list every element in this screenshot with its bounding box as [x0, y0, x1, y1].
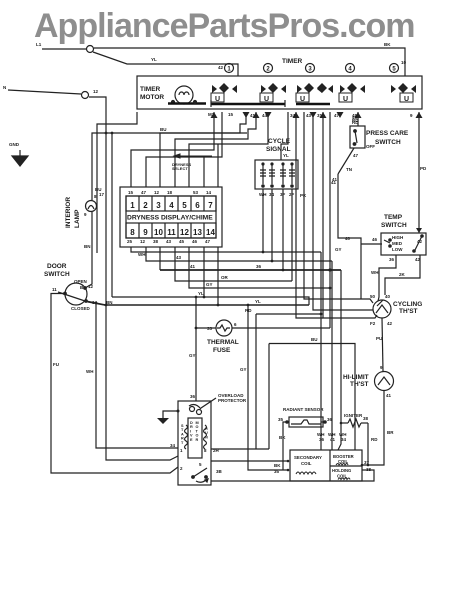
svg-text:7: 7 [208, 201, 213, 210]
wire x248 down [248, 305, 288, 470]
svg-text:36: 36 [319, 437, 325, 442]
dryness display block outer [120, 187, 222, 247]
svg-text:9: 9 [410, 113, 413, 118]
svg-text:2K: 2K [399, 272, 406, 277]
svg-text:PU: PU [376, 336, 382, 341]
svg-text:36: 36 [389, 257, 395, 262]
wire RD y314 [256, 313, 321, 315]
dryness bottom pin labels [127, 239, 211, 244]
radiant sensor box [286, 417, 326, 427]
svg-text:COIL: COIL [301, 461, 312, 466]
wire BU branch x112 [111, 133, 113, 297]
svg-text:8: 8 [130, 228, 135, 237]
terminal N [82, 92, 89, 99]
svg-text:1: 1 [130, 201, 135, 210]
wire timer staircase x313 [313, 112, 373, 310]
svg-text:U: U [264, 96, 269, 103]
svg-text:F2: F2 [370, 321, 376, 326]
wire sensor right stub [321, 421, 325, 423]
svg-text:36: 36 [190, 394, 196, 399]
wire N feed [8, 90, 81, 94]
wire x51 FU door to motor [51, 294, 178, 474]
svg-text:CLOSED: CLOSED [71, 306, 91, 311]
wire h5 GY dryness p189 [189, 247, 330, 288]
wire BU bold to valve [269, 344, 355, 451]
wire temp pin36 to cycling [378, 255, 396, 301]
svg-text:43: 43 [306, 113, 312, 118]
wire cycle pin4 up [291, 189, 293, 281]
svg-text:40: 40 [385, 294, 391, 299]
svg-text:42: 42 [218, 65, 224, 70]
svg-text:6: 6 [234, 322, 237, 327]
wire x331 down to booster coil [331, 261, 333, 450]
coil pin dots [287, 460, 370, 472]
svg-text:4: 4 [169, 201, 174, 210]
dryness cells 1-7 [126, 196, 216, 211]
wire YL from L1 [93, 52, 238, 76]
door switch [58, 283, 104, 305]
svg-text:YL: YL [151, 57, 157, 62]
svg-text:RD: RD [245, 308, 252, 313]
svg-text:U: U [300, 96, 305, 103]
svg-text:47: 47 [141, 190, 147, 195]
svg-text:45: 45 [179, 239, 185, 244]
timer contact 3 [296, 83, 333, 103]
svg-text:17: 17 [99, 192, 105, 197]
svg-text:18: 18 [167, 190, 173, 195]
wire sensor left drop [283, 422, 287, 470]
svg-text:3B: 3B [216, 469, 223, 474]
wire timer staircase x304 to cycling [304, 112, 373, 303]
cycle signal bottom labels [259, 192, 295, 197]
wire x196 GY fuse-motor [195, 297, 197, 401]
wire timer to cycle signal top [281, 112, 288, 160]
svg-text:BN: BN [84, 244, 91, 249]
wire N down [89, 97, 106, 133]
svg-text:L1: L1 [36, 42, 42, 47]
svg-text:41: 41 [332, 177, 338, 182]
dryness select pointer [174, 154, 212, 158]
timer contact 2 [260, 83, 286, 103]
wire cycle pin2 up [271, 189, 273, 261]
svg-text:41: 41 [330, 437, 336, 442]
wire lamp circuit upper [92, 133, 106, 200]
wire motor right to BU riser [211, 448, 269, 450]
wire h6 YL dryness p204 [203, 247, 205, 297]
svg-text:43: 43 [176, 255, 182, 260]
wire igniter right drop [367, 423, 369, 465]
wire press care bottom to temp switch [338, 174, 361, 244]
svg-text:IGNITER: IGNITER [344, 413, 363, 418]
svg-text:PROTECTOR: PROTECTOR [218, 398, 247, 403]
svg-text:41: 41 [190, 264, 196, 269]
wire YL y292 [112, 297, 309, 305]
wire timer p5 to dryness p189 [189, 112, 268, 187]
wire PD pin9 to temp switch [418, 112, 420, 233]
svg-text:25: 25 [127, 239, 133, 244]
svg-text:43: 43 [166, 239, 172, 244]
wire press care top [357, 112, 359, 126]
ground [12, 150, 28, 166]
svg-text:LOW: LOW [392, 247, 403, 252]
svg-text:TH'ST: TH'ST [399, 308, 418, 315]
svg-text:12: 12 [180, 228, 189, 237]
hi-limit thermostat [375, 372, 394, 391]
svg-text:DRIVE: DRIVE [190, 421, 193, 442]
timer motor symbol [168, 86, 206, 104]
wire gas box bottom to motor [211, 470, 374, 481]
svg-text:START: START [181, 424, 184, 445]
wire dryness p218 stub [217, 144, 219, 187]
svg-text:WH: WH [138, 252, 146, 257]
wire timer p4 to dryness p175 [175, 112, 256, 187]
svg-text:31: 31 [317, 113, 323, 118]
gas valve assembly box [290, 450, 362, 481]
svg-text:SWITCH: SWITCH [375, 139, 401, 146]
wire hilimit BR down [362, 391, 384, 465]
svg-text:GND: GND [9, 142, 20, 147]
svg-text:15: 15 [228, 112, 234, 117]
svg-text:SECONDARY: SECONDARY [294, 455, 322, 460]
svg-text:BU: BU [160, 127, 167, 132]
svg-text:1: 1 [180, 448, 183, 453]
svg-text:34: 34 [290, 113, 296, 118]
svg-text:42: 42 [387, 321, 393, 326]
thermal fuse [216, 320, 232, 336]
svg-text:2: 2 [143, 201, 148, 210]
terminal L1 [87, 46, 94, 53]
wire cycle pin3 up [282, 189, 284, 270]
svg-text:GY: GY [206, 282, 213, 287]
timer bottom pin labels [208, 112, 413, 125]
svg-text:THERMAL: THERMAL [207, 339, 239, 346]
svg-text:INTERIOR: INTERIOR [65, 197, 72, 228]
svg-text:41: 41 [386, 393, 392, 398]
svg-text:SIGNAL: SIGNAL [266, 146, 291, 153]
svg-text:PRESS CARE: PRESS CARE [366, 130, 409, 137]
wire L1 feed [42, 48, 86, 50]
wire BK top [94, 48, 405, 76]
timer heavy bus bars [211, 103, 330, 106]
svg-text:35: 35 [278, 417, 284, 422]
wire motor right lower [211, 460, 288, 462]
timer box [137, 76, 422, 109]
wire fuse left [196, 327, 216, 329]
svg-text:36: 36 [256, 264, 262, 269]
svg-text:5: 5 [199, 462, 202, 467]
svg-text:14: 14 [206, 228, 215, 237]
svg-text:TEMP: TEMP [384, 214, 403, 221]
svg-text:42: 42 [417, 239, 423, 244]
wire dryness p218 down [217, 247, 219, 305]
svg-text:BK: BK [384, 42, 391, 47]
svg-text:11: 11 [52, 287, 57, 292]
motor centrifugal switch [192, 468, 208, 482]
wire h2 dryness p146 [146, 247, 332, 261]
wire timer p1 to dryness p131 [131, 112, 214, 187]
svg-text:15: 15 [128, 190, 134, 195]
wire BU riser x269 [268, 344, 270, 450]
wire door switch to junctions [86, 301, 106, 305]
svg-text:41: 41 [250, 113, 256, 118]
svg-text:OPEN: OPEN [74, 279, 87, 284]
svg-text:9: 9 [143, 228, 148, 237]
svg-text:DOOR: DOOR [47, 263, 67, 270]
wire BN y300 [104, 304, 309, 306]
timer contact 4 [339, 83, 365, 103]
svg-text:5: 5 [182, 201, 187, 210]
overload pointer arrow [201, 398, 216, 408]
svg-text:CYCLING: CYCLING [393, 301, 422, 308]
svg-text:OR: OR [221, 275, 229, 280]
svg-text:TIMER: TIMER [140, 86, 161, 93]
svg-text:U: U [215, 96, 220, 103]
svg-text:MOTOR: MOTOR [196, 421, 199, 442]
wire fuse right [232, 327, 330, 329]
svg-text:SWITCH: SWITCH [381, 222, 407, 229]
cycle signal box [255, 160, 298, 189]
svg-text:MED: MED [392, 241, 403, 246]
timer cam circled numbers [225, 64, 399, 73]
svg-text:DRYNESS DISPLAY/CHIME: DRYNESS DISPLAY/CHIME [127, 215, 213, 222]
wire lamp circuit lower [85, 212, 92, 288]
svg-text:U: U [404, 96, 409, 103]
svg-text:53: 53 [193, 190, 199, 195]
wire BU horizontal [106, 132, 247, 134]
svg-text:TIMER: TIMER [282, 58, 303, 65]
wire temp pin42 to cycling [385, 255, 420, 295]
svg-text:9: 9 [84, 212, 87, 217]
wire h3 dryness p160 [159, 247, 161, 270]
svg-text:6: 6 [195, 201, 200, 210]
svg-text:GY: GY [189, 353, 196, 358]
svg-text:46: 46 [372, 237, 378, 242]
interior lamp [86, 201, 97, 212]
svg-text:FUSE: FUSE [213, 347, 231, 354]
svg-text:WH: WH [86, 369, 94, 374]
svg-text:38: 38 [153, 239, 159, 244]
svg-text:14: 14 [206, 190, 212, 195]
svg-text:47: 47 [334, 113, 340, 118]
svg-text:LAMP: LAMP [74, 209, 81, 228]
motor chassis ground [163, 411, 178, 418]
svg-text:FU: FU [53, 362, 59, 367]
svg-text:46: 46 [192, 239, 198, 244]
wire BU branch x104 [106, 133, 178, 460]
press care switch box [338, 126, 365, 174]
svg-text:10: 10 [401, 60, 407, 65]
wire cycle pin1 up [262, 189, 264, 252]
motor box [178, 401, 211, 485]
svg-text:YL: YL [255, 299, 261, 304]
timer contact 5 [391, 83, 416, 103]
wire h4 OR dryness p175 [175, 247, 292, 281]
motor winding squiggles [185, 425, 207, 449]
svg-text:HOLDING: HOLDING [332, 468, 351, 473]
svg-text:12: 12 [93, 89, 99, 94]
svg-text:34: 34 [341, 437, 347, 442]
svg-text:47: 47 [353, 153, 359, 158]
timer bottom pin triangles [211, 112, 423, 118]
svg-text:44: 44 [262, 113, 268, 118]
wire timer staircase x323 [323, 112, 377, 318]
wire timer x330 to fuse [329, 112, 331, 328]
dryness cells 8-14 [126, 223, 216, 238]
svg-text:HIGH: HIGH [392, 235, 403, 240]
temp switch tiny labels [392, 235, 423, 252]
dryness top pin labels [128, 190, 212, 195]
svg-text:AppliancePartsPros.com: AppliancePartsPros.com [34, 7, 414, 45]
svg-text:34: 34 [170, 443, 176, 448]
svg-text:47: 47 [205, 239, 211, 244]
svg-text:HI-LIMIT: HI-LIMIT [343, 374, 369, 381]
svg-text:GY: GY [335, 247, 342, 252]
svg-text:10: 10 [154, 228, 163, 237]
svg-text:U: U [343, 96, 348, 103]
svg-text:12: 12 [154, 190, 160, 195]
svg-text:RD: RD [371, 437, 378, 442]
svg-text:TN: TN [346, 167, 352, 172]
svg-text:YL: YL [198, 291, 204, 296]
pin triangle temp top [416, 228, 422, 233]
svg-text:RADIANT SENSOR: RADIANT SENSOR [283, 407, 324, 412]
igniter symbol [341, 419, 368, 427]
wire h1 dryness p131 [131, 247, 321, 252]
wire x341 down to igniter [338, 270, 341, 450]
temp switch box [381, 233, 426, 255]
wire timer p2 to dryness p146 [146, 112, 222, 187]
cycle signal inner squiggles [260, 170, 295, 176]
svg-text:12: 12 [140, 239, 146, 244]
wire x256 down [255, 314, 257, 449]
svg-text:PK: PK [300, 193, 307, 198]
svg-text:2: 2 [180, 466, 183, 471]
svg-text:BU: BU [311, 337, 318, 342]
wire x321 down to secondary coil [320, 252, 322, 450]
svg-text:N: N [3, 85, 6, 90]
wire x97 elbow from timer left [97, 112, 137, 253]
svg-text:OFF: OFF [366, 144, 375, 149]
svg-text:WH: WH [371, 270, 379, 275]
svg-text:3: 3 [156, 201, 161, 210]
wire cycling to hilimit PU [382, 318, 383, 371]
svg-text:11: 11 [167, 228, 176, 237]
wire x96 down to motor [96, 303, 178, 448]
wire temp feeder down [360, 244, 362, 299]
svg-text:50: 50 [370, 294, 376, 299]
svg-text:PD: PD [420, 166, 427, 171]
wire dryness p204 stub [203, 157, 205, 187]
cycling thermostat [373, 300, 391, 318]
svg-text:MOTOR: MOTOR [140, 94, 164, 101]
svg-text:TH'ST: TH'ST [350, 381, 369, 388]
wire long x296 [296, 112, 323, 318]
timer contact 1 [211, 83, 237, 103]
svg-text:SWITCH: SWITCH [44, 271, 70, 278]
svg-text:13: 13 [193, 228, 202, 237]
svg-text:YL: YL [283, 153, 289, 158]
svg-text:GY: GY [240, 367, 247, 372]
wire timer p3 to dryness p160 [160, 112, 246, 187]
svg-text:BK: BK [274, 463, 281, 468]
svg-text:BR: BR [387, 430, 394, 435]
svg-text:38: 38 [363, 416, 369, 421]
